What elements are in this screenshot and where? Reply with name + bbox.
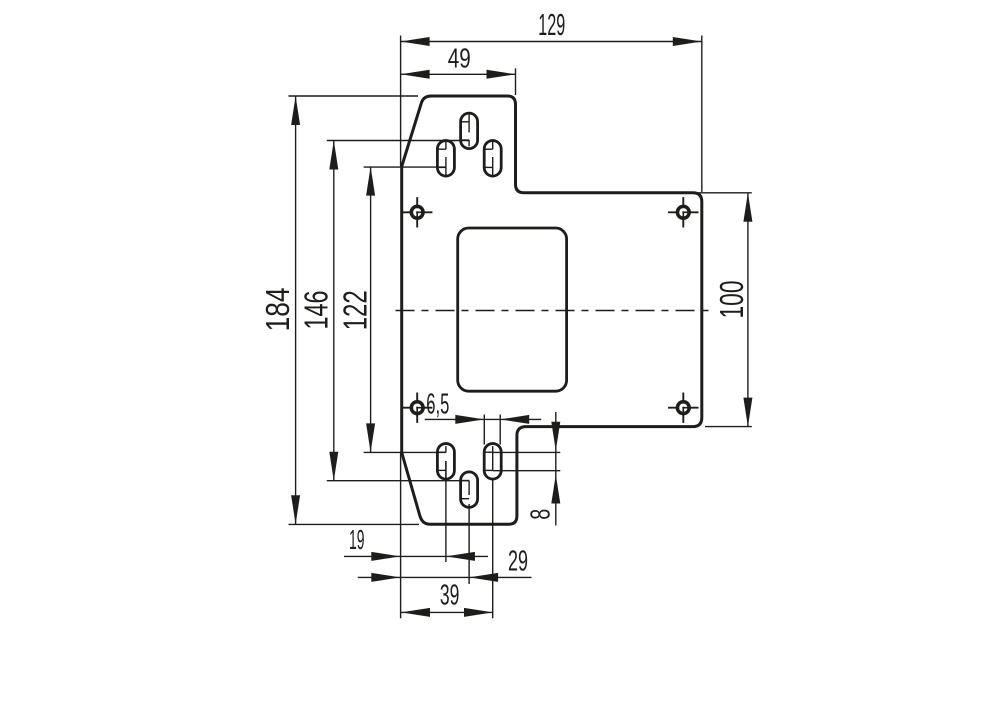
ext h y=452.4 for 8 top — [493, 451, 561, 453]
ext v x=500.2 for 6.5 — [499, 415, 501, 445]
ext h y=480.7 for 146 bottom — [327, 480, 469, 482]
svg-text:19: 19 — [349, 524, 365, 555]
ext v left x=400.6 bottom — [400, 453, 402, 619]
ext v x=445.9 for 19 — [445, 461, 447, 562]
ext v right x=701.8 — [701, 36, 703, 193]
ext v x=492.7 for 39 — [492, 452, 494, 470]
ext h y=523.5 for 184 bottom — [289, 523, 420, 525]
svg-text:122: 122 — [336, 290, 373, 330]
slot top-center — [461, 113, 478, 149]
dimension 184 — [259, 96, 300, 524]
ext v x=469.1 for 29 — [468, 504, 470, 584]
dimension 6,5 — [425, 388, 542, 424]
centerline (dashed) — [396, 310, 715, 312]
svg-text:100: 100 — [713, 281, 750, 319]
ext v x=515.5 for 49 — [515, 68, 517, 95]
central cutout — [458, 228, 567, 391]
dimension 122 — [336, 167, 375, 453]
dimension 129 — [401, 7, 702, 46]
dimension 100 — [713, 193, 753, 427]
hole bottom-right — [668, 393, 698, 423]
svg-text:146: 146 — [298, 291, 335, 330]
dimension 39 — [401, 579, 493, 617]
svg-text:6,5: 6,5 — [426, 388, 449, 420]
extension lines — [289, 36, 752, 619]
svg-text:39: 39 — [440, 579, 460, 611]
ext h y=426.6 for 100 bottom — [705, 426, 752, 428]
svg-text:8: 8 — [525, 509, 556, 520]
svg-text:184: 184 — [259, 287, 296, 331]
dimension 29 — [358, 545, 532, 582]
svg-text:29: 29 — [508, 545, 528, 577]
hole bottom-left — [402, 393, 432, 423]
ext h y=166.6 for 122 top — [364, 166, 446, 168]
ext h y=470.7 for 8 bottom — [493, 470, 561, 472]
ext h y=192.8 for 100 top — [697, 192, 752, 194]
ext h y=452.4 for 122 bottom — [364, 451, 446, 453]
ext h y=140.5 for 146 top — [327, 140, 469, 142]
slot bottom-right — [484, 444, 501, 480]
slot top-right — [484, 141, 501, 177]
svg-text:129: 129 — [538, 7, 565, 42]
svg-text:49: 49 — [448, 43, 471, 74]
ext v x=484.3 for 6.5 — [483, 415, 485, 445]
slot bottom-left — [437, 444, 454, 480]
dimension 8 — [525, 412, 561, 526]
dimension 146 — [298, 141, 339, 481]
dimension 19 — [344, 524, 488, 561]
ext h y=96 for 184 top — [289, 95, 419, 97]
hole top-left — [402, 197, 432, 227]
slot top-left — [437, 141, 454, 177]
slot bottom-center — [461, 472, 478, 508]
dimension 49 — [401, 43, 516, 79]
ext v left x=400.6 top — [400, 36, 402, 167]
hole top-right — [668, 197, 698, 227]
plate outline — [402, 96, 702, 524]
